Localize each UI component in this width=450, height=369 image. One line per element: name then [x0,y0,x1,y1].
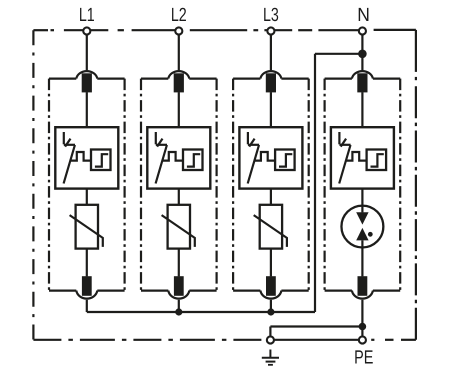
svg-text:L3: L3 [263,5,279,26]
svg-text:L2: L2 [171,5,187,26]
svg-text:L1: L1 [79,5,95,26]
svg-text:N: N [357,5,370,26]
svg-text:PE: PE [354,348,373,369]
